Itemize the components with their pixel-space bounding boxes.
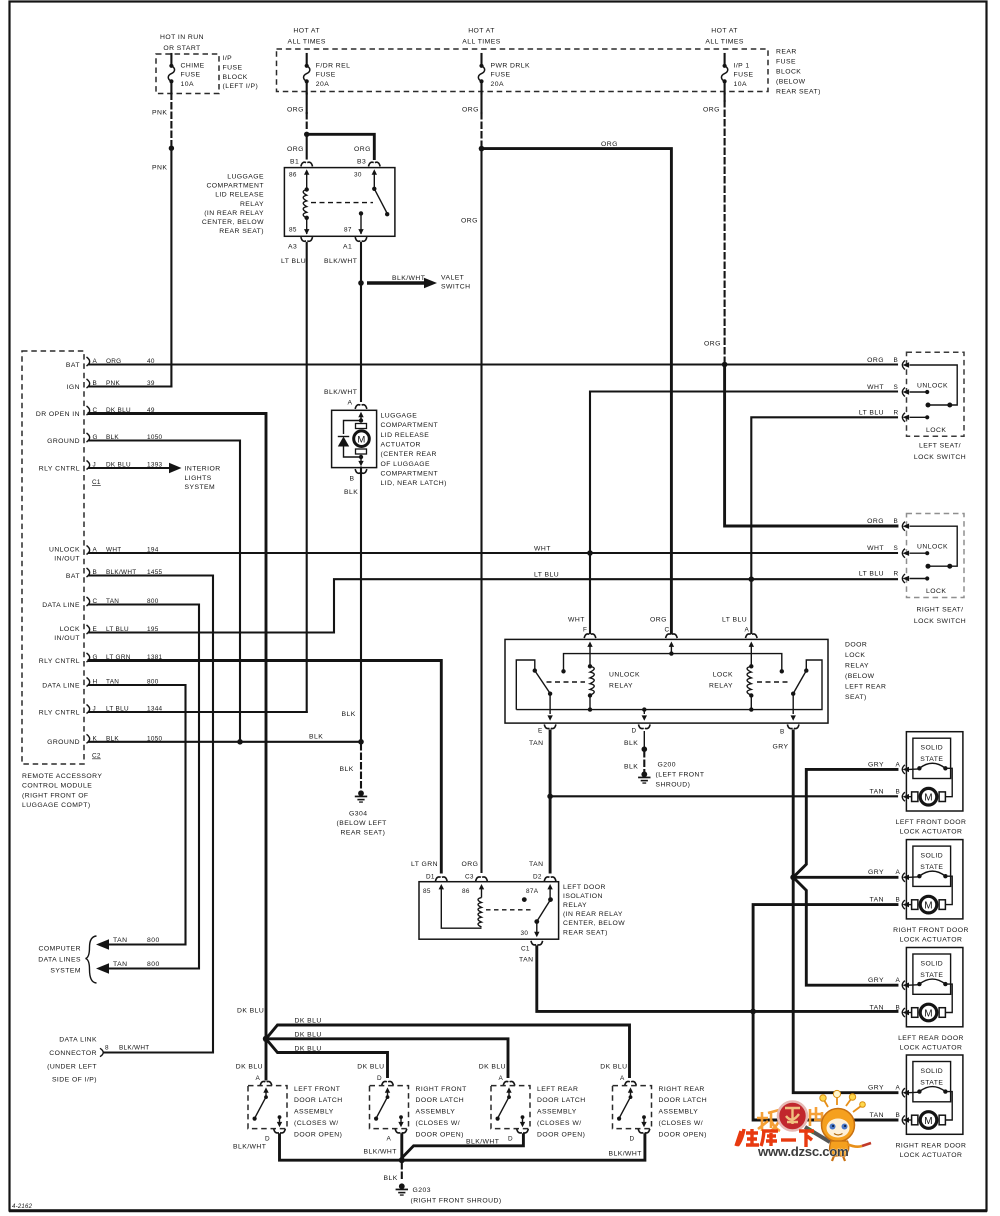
- svg-text:ORG: ORG: [703, 107, 720, 114]
- svg-text:ORG: ORG: [287, 146, 304, 153]
- svg-text:A3: A3: [288, 244, 297, 251]
- svg-text:HOT AT: HOT AT: [711, 27, 738, 34]
- wire BLK 1050 GROUND row K to G304 splice: [89, 734, 364, 745]
- svg-text:A: A: [896, 869, 901, 876]
- svg-text:LT BLU: LT BLU: [281, 258, 306, 265]
- svg-text:D: D: [508, 1136, 513, 1143]
- motor: right front door lock actuator: [868, 840, 969, 944]
- wire BLK 1050 GROUND row down to K row: [89, 441, 240, 742]
- svg-text:BLK/WHT: BLK/WHT: [609, 1150, 642, 1157]
- svg-text:D: D: [632, 728, 637, 735]
- svg-text:TAN: TAN: [529, 740, 543, 747]
- svg-text:LEFT REAR: LEFT REAR: [537, 1086, 578, 1093]
- door lock relay label: [845, 642, 886, 702]
- svg-text:BAT: BAT: [66, 573, 80, 580]
- wire TAN from relay E down to isolation relay D2, branch to LF actuator B: [547, 731, 897, 872]
- switch: left rear door latch assembly: [479, 1064, 586, 1143]
- wire WHT 194 UNLOCK row to seat switches and relay F: [89, 392, 897, 634]
- svg-text:G203: G203: [413, 1187, 431, 1194]
- svg-text:LOCK ACTUATOR: LOCK ACTUATOR: [900, 937, 963, 944]
- svg-text:DOOR OPEN): DOOR OPEN): [294, 1131, 342, 1138]
- svg-text:BLK: BLK: [624, 764, 638, 771]
- svg-text:FUSE: FUSE: [776, 59, 796, 66]
- svg-text:LEFT FRONT DOOR: LEFT FRONT DOOR: [896, 819, 967, 826]
- motor: left front door lock actuator: [868, 732, 966, 836]
- svg-text:(CLOSES W/: (CLOSES W/: [294, 1120, 339, 1127]
- svg-text:LT BLU: LT BLU: [859, 571, 884, 578]
- svg-text:ACTUATOR: ACTUATOR: [381, 441, 421, 448]
- svg-text:ALL TIMES: ALL TIMES: [705, 38, 743, 45]
- svg-text:LOCK: LOCK: [60, 626, 80, 633]
- svg-text:A: A: [256, 1075, 261, 1082]
- svg-text:COMPARTMENT: COMPARTMENT: [206, 183, 264, 190]
- svg-text:C3: C3: [465, 874, 474, 881]
- ground G304: [337, 744, 387, 837]
- svg-text:TAN: TAN: [870, 1005, 884, 1012]
- svg-text:A: A: [896, 977, 901, 984]
- svg-text:LOCK ACTUATOR: LOCK ACTUATOR: [900, 829, 963, 836]
- data link connector label: [47, 1037, 97, 1084]
- svg-text:RIGHT REAR DOOR: RIGHT REAR DOOR: [896, 1143, 967, 1150]
- svg-text:LEFT SEAT/: LEFT SEAT/: [919, 443, 961, 450]
- switch: right front door latch assembly: [357, 1064, 467, 1143]
- pin 87: [359, 211, 363, 215]
- svg-text:ALL TIMES: ALL TIMES: [287, 38, 325, 45]
- svg-text:ORG: ORG: [287, 107, 304, 114]
- wire DK BLU splice to four door latches: [237, 1008, 630, 1080]
- svg-text:(CLOSES W/: (CLOSES W/: [659, 1120, 704, 1127]
- svg-text:LID, NEAR LATCH): LID, NEAR LATCH): [381, 480, 447, 487]
- svg-text:REAR SEAT): REAR SEAT): [776, 89, 821, 96]
- svg-text:UNLOCK: UNLOCK: [609, 672, 640, 679]
- svg-text:BLK/WHT: BLK/WHT: [324, 389, 357, 396]
- svg-text:LOCK ACTUATOR: LOCK ACTUATOR: [900, 1045, 963, 1052]
- motor: luggage compartment lid release actuator: [324, 389, 377, 740]
- svg-text:DOOR OPEN): DOOR OPEN): [537, 1131, 585, 1138]
- svg-text:BLK/WHT: BLK/WHT: [324, 258, 357, 265]
- svg-text:86: 86: [462, 888, 470, 895]
- fuse CHIME FUSE 10A (I/P fuse block): [156, 34, 219, 94]
- svg-text:(BELOW: (BELOW: [845, 673, 875, 680]
- svg-text:GROUND: GROUND: [47, 739, 80, 746]
- rear fuse block (dashed box): [277, 49, 769, 92]
- I/P fuse block label: [223, 55, 259, 90]
- svg-text:FUSE: FUSE: [316, 72, 336, 79]
- svg-text:8: 8: [105, 1045, 109, 1052]
- diode: [344, 421, 362, 435]
- svg-text:DK BLU: DK BLU: [600, 1064, 627, 1071]
- svg-text:ASSEMBLY: ASSEMBLY: [659, 1109, 699, 1116]
- svg-text:BLK/WHT: BLK/WHT: [119, 1045, 150, 1052]
- svg-text:S: S: [894, 384, 899, 391]
- svg-text:RELAY: RELAY: [709, 683, 733, 690]
- svg-text:LOCK: LOCK: [845, 652, 865, 659]
- fuse F/DR REL FUSE 20A: [287, 27, 350, 93]
- svg-text:G304: G304: [349, 811, 367, 818]
- wire BLK/WHT from luggage relay A1 to valet junction and actuator: [358, 243, 364, 401]
- svg-text:CENTER, BELOW: CENTER, BELOW: [202, 219, 264, 226]
- svg-text:D: D: [630, 1136, 635, 1143]
- svg-text:RIGHT SEAT/: RIGHT SEAT/: [917, 607, 964, 614]
- svg-text:ISOLATION: ISOLATION: [563, 893, 603, 900]
- switch: right seat lock switch: [902, 514, 964, 598]
- svg-text:85: 85: [423, 888, 431, 895]
- svg-text:DOOR: DOOR: [845, 642, 867, 649]
- svg-text:HOT AT: HOT AT: [293, 27, 320, 34]
- svg-text:B1: B1: [290, 159, 299, 166]
- svg-text:R: R: [894, 571, 899, 578]
- svg-text:RELAY: RELAY: [609, 683, 633, 690]
- wire GRY from relay B to all four door lock actuators A: [790, 731, 897, 1093]
- svg-text:S: S: [894, 545, 899, 552]
- svg-text:DK BLU: DK BLU: [295, 1018, 322, 1025]
- svg-text:CONTROL MODULE: CONTROL MODULE: [22, 783, 92, 790]
- svg-text:D1: D1: [426, 874, 435, 881]
- svg-text:HOT IN RUN: HOT IN RUN: [160, 34, 204, 41]
- wire BLK/WHT from latches to G203 junction: [233, 1135, 645, 1163]
- svg-text:(IN REAR RELAY: (IN REAR RELAY: [563, 911, 623, 918]
- svg-text:R: R: [894, 410, 899, 417]
- svg-text:LEFT REAR: LEFT REAR: [845, 684, 886, 691]
- svg-text:(LEFT I/P): (LEFT I/P): [223, 83, 259, 90]
- wire ORG 40 BAT row to left seat switch B: [89, 363, 897, 365]
- svg-text:A: A: [499, 1075, 504, 1082]
- svg-text:B: B: [894, 518, 899, 525]
- ground G203: [384, 1163, 502, 1205]
- wire ORG from splice down to right seat lock switch B: [725, 365, 897, 527]
- svg-text:B: B: [894, 357, 899, 364]
- svg-text:BAT: BAT: [66, 362, 80, 369]
- svg-text:DOOR LATCH: DOOR LATCH: [537, 1097, 586, 1104]
- svg-text:ORG: ORG: [867, 518, 884, 525]
- svg-text:HOT AT: HOT AT: [468, 27, 495, 34]
- svg-text:TAN: TAN: [113, 961, 127, 968]
- svg-text:B: B: [896, 1112, 901, 1119]
- svg-text:DK BLU: DK BLU: [357, 1064, 384, 1071]
- svg-text:DK BLU: DK BLU: [295, 1031, 322, 1038]
- svg-text:(BELOW: (BELOW: [776, 79, 806, 86]
- computer data lines system label: [38, 936, 96, 983]
- svg-text:WHT: WHT: [534, 546, 551, 553]
- relay activation dashed link: [311, 202, 373, 204]
- svg-text:BLK: BLK: [384, 1175, 398, 1182]
- svg-text:TAN: TAN: [529, 861, 543, 868]
- svg-text:BLK: BLK: [340, 766, 354, 773]
- svg-text:DR OPEN IN: DR OPEN IN: [36, 411, 80, 418]
- svg-text:RLY CNTRL: RLY CNTRL: [39, 658, 80, 665]
- svg-text:ORG: ORG: [601, 141, 618, 148]
- svg-text:FUSE: FUSE: [181, 72, 201, 79]
- svg-text:ORG: ORG: [354, 146, 371, 153]
- svg-text:DATA LINE: DATA LINE: [42, 602, 80, 609]
- isolation relay label: [563, 884, 625, 936]
- wire LT BLU 1344 RLY CNTRL row joins A3: [89, 711, 307, 713]
- svg-text:ORG: ORG: [867, 357, 884, 364]
- svg-text:IN/OUT: IN/OUT: [54, 635, 80, 642]
- svg-text:RLY CNTRL: RLY CNTRL: [39, 709, 80, 716]
- svg-text:87: 87: [344, 227, 352, 234]
- svg-text:GRY: GRY: [773, 744, 789, 751]
- svg-text:VALET: VALET: [441, 275, 464, 282]
- svg-text:DOOR LATCH: DOOR LATCH: [416, 1097, 465, 1104]
- wire ORG from I/P1 fuse (dashed) down to BAT row: [703, 94, 727, 368]
- svg-text:DATA LINE: DATA LINE: [42, 682, 80, 689]
- fuse I/P 1 FUSE 10A: [705, 27, 753, 93]
- svg-text:E: E: [538, 728, 543, 735]
- svg-text:A: A: [745, 627, 750, 634]
- svg-text:86: 86: [289, 172, 297, 179]
- svg-text:REAR SEAT): REAR SEAT): [219, 228, 264, 235]
- svg-text:DOOR LATCH: DOOR LATCH: [294, 1097, 343, 1104]
- svg-text:PWR DRLK: PWR DRLK: [491, 62, 530, 69]
- svg-text:REAR: REAR: [776, 49, 797, 56]
- svg-text:DATA LINES: DATA LINES: [38, 957, 81, 964]
- watermark: dzsc.com logo: [736, 1090, 871, 1161]
- right seat lock switch labels: [859, 518, 966, 625]
- svg-text:SYSTEM: SYSTEM: [185, 484, 216, 491]
- switch: left seat lock switch: [902, 352, 964, 436]
- svg-text:GRY: GRY: [868, 1085, 884, 1092]
- svg-text:RIGHT FRONT: RIGHT FRONT: [416, 1086, 467, 1093]
- svg-text:(CLOSES W/: (CLOSES W/: [416, 1120, 461, 1127]
- svg-text:A: A: [620, 1075, 625, 1082]
- svg-text:SWITCH: SWITCH: [441, 284, 471, 291]
- svg-text:4-2162: 4-2162: [12, 1204, 33, 1210]
- ground G200: [624, 731, 705, 789]
- svg-text:LOCK SWITCH: LOCK SWITCH: [914, 618, 966, 625]
- svg-text:(CENTER REAR: (CENTER REAR: [381, 451, 437, 458]
- svg-text:ASSEMBLY: ASSEMBLY: [416, 1109, 456, 1116]
- relay: left door isolation relay: [411, 861, 559, 964]
- svg-text:LUGGAGE COMPT): LUGGAGE COMPT): [22, 802, 91, 809]
- svg-text:B: B: [896, 897, 901, 904]
- svg-text:BLK: BLK: [624, 740, 638, 747]
- svg-text:C1: C1: [521, 946, 530, 953]
- svg-text:I/P 1: I/P 1: [734, 62, 750, 69]
- svg-text:ORG: ORG: [462, 107, 479, 114]
- svg-text:BLK: BLK: [344, 489, 358, 496]
- svg-text:LOCK SWITCH: LOCK SWITCH: [914, 454, 966, 461]
- svg-text:BLK/WHT: BLK/WHT: [233, 1144, 266, 1151]
- svg-text:20A: 20A: [491, 81, 504, 88]
- svg-text:REAR SEAT): REAR SEAT): [563, 929, 608, 936]
- svg-text:WHT: WHT: [867, 545, 884, 552]
- rear fuse block label: [776, 49, 821, 96]
- svg-text:SYSTEM: SYSTEM: [50, 968, 81, 975]
- svg-text:CONNECTOR: CONNECTOR: [49, 1050, 97, 1057]
- svg-text:M: M: [357, 434, 365, 445]
- svg-text:DK BLU: DK BLU: [237, 1008, 264, 1015]
- svg-text:A: A: [387, 1136, 392, 1143]
- svg-text:(UNDER LEFT: (UNDER LEFT: [47, 1063, 97, 1070]
- switch: left front door latch assembly: [236, 1064, 343, 1143]
- svg-text:A: A: [896, 1085, 901, 1092]
- svg-text:DOOR OPEN): DOOR OPEN): [659, 1131, 707, 1138]
- svg-text:LT BLU: LT BLU: [859, 410, 884, 417]
- svg-text:LUGGAGE: LUGGAGE: [227, 174, 264, 181]
- wire LT BLU from luggage relay A3 down to RACM pin J (circuit 1344): [306, 243, 308, 712]
- svg-text:PNK: PNK: [152, 110, 167, 117]
- svg-text:INTERIOR: INTERIOR: [185, 466, 221, 473]
- svg-text:LT BLU: LT BLU: [722, 617, 747, 624]
- svg-text:LEFT DOOR: LEFT DOOR: [563, 884, 606, 891]
- svg-text:DK BLU: DK BLU: [236, 1064, 263, 1071]
- svg-text:A: A: [348, 400, 353, 407]
- svg-text:10A: 10A: [734, 81, 747, 88]
- svg-text:SEAT): SEAT): [845, 694, 867, 701]
- wire LT GRN 1381 RLY CNTRL row to isolation relay D1: [89, 661, 441, 873]
- svg-text:TAN: TAN: [870, 789, 884, 796]
- svg-text:RELAY: RELAY: [845, 663, 869, 670]
- svg-text:B: B: [780, 729, 785, 736]
- relay coil (luggage relay): [305, 187, 309, 191]
- svg-text:WHT: WHT: [568, 617, 585, 624]
- svg-text:BLK/WHT: BLK/WHT: [392, 275, 425, 282]
- svg-text:WHT: WHT: [867, 384, 884, 391]
- svg-text:UNLOCK: UNLOCK: [49, 546, 80, 553]
- wire TAN from isolation relay C1 to RF/LR/RR actuators B: [537, 905, 897, 1120]
- wire ORG continues down to isolation relay C3: [461, 149, 482, 872]
- svg-text:C: C: [665, 627, 670, 634]
- svg-text:I/P: I/P: [223, 55, 233, 62]
- svg-text:F: F: [583, 627, 587, 634]
- svg-text:REAR SEAT): REAR SEAT): [341, 830, 386, 837]
- motor: right rear door lock actuator: [868, 1055, 966, 1159]
- svg-text:RELAY: RELAY: [563, 902, 587, 909]
- svg-text:FUSE: FUSE: [223, 64, 243, 71]
- luggage actuator label: [381, 413, 447, 488]
- svg-text:LEFT REAR DOOR: LEFT REAR DOOR: [898, 1035, 964, 1042]
- svg-text:TAN: TAN: [870, 897, 884, 904]
- svg-text:C2: C2: [92, 753, 101, 760]
- wire PNK 39 IGN row: [89, 385, 171, 387]
- svg-text:www.dzsc.com: www.dzsc.com: [757, 1144, 848, 1159]
- svg-text:LID RELEASE: LID RELEASE: [381, 432, 430, 439]
- svg-text:B: B: [896, 1005, 901, 1012]
- svg-text:87A: 87A: [526, 888, 539, 895]
- svg-text:PNK: PNK: [152, 165, 167, 172]
- svg-text:DATA LINK: DATA LINK: [59, 1037, 97, 1044]
- svg-text:TAN: TAN: [870, 1112, 884, 1119]
- svg-text:BLOCK: BLOCK: [223, 74, 248, 81]
- svg-text:FUSE: FUSE: [734, 72, 754, 79]
- svg-text:CENTER, BELOW: CENTER, BELOW: [563, 920, 625, 927]
- motor M: [356, 424, 367, 429]
- svg-text:(RIGHT FRONT SHROUD): (RIGHT FRONT SHROUD): [411, 1198, 502, 1205]
- svg-text:OR START: OR START: [163, 45, 200, 52]
- svg-text:RLY CNTRL: RLY CNTRL: [39, 465, 80, 472]
- svg-text:D: D: [265, 1136, 270, 1143]
- svg-text:ALL TIMES: ALL TIMES: [462, 38, 500, 45]
- svg-text:BLK: BLK: [309, 734, 323, 741]
- svg-text:GROUND: GROUND: [47, 438, 80, 445]
- svg-text:LIGHTS: LIGHTS: [185, 475, 212, 482]
- svg-text:REMOTE ACCESSORY: REMOTE ACCESSORY: [22, 773, 102, 780]
- svg-text:TAN: TAN: [519, 957, 533, 964]
- svg-text:IN/OUT: IN/OUT: [54, 555, 80, 562]
- svg-text:30: 30: [521, 930, 529, 937]
- wire TAN 800 DATA LINE row C to computer data lines: [89, 605, 199, 974]
- valet switch arrow (BLK/WHT): [367, 275, 471, 291]
- svg-text:LUGGAGE: LUGGAGE: [381, 413, 418, 420]
- svg-text:D: D: [377, 1075, 382, 1082]
- svg-text:85: 85: [289, 227, 297, 234]
- svg-text:TAN: TAN: [113, 937, 127, 944]
- wire ORG branch right to door lock relay pin C: [482, 141, 672, 633]
- svg-text:B: B: [350, 476, 355, 483]
- svg-text:LID RELEASE: LID RELEASE: [215, 192, 264, 199]
- relay: door lock relay (unlock + lock): [505, 617, 828, 751]
- RACM label: [22, 773, 102, 809]
- svg-text:LEFT FRONT: LEFT FRONT: [294, 1086, 340, 1093]
- svg-text:(IN REAR RELAY: (IN REAR RELAY: [204, 210, 264, 217]
- svg-text:LOCK: LOCK: [713, 672, 733, 679]
- svg-text:ORG: ORG: [704, 341, 721, 348]
- svg-text:RELAY: RELAY: [240, 201, 264, 208]
- svg-text:G200: G200: [658, 762, 676, 769]
- svg-text:800: 800: [147, 937, 160, 944]
- fuse PWR DRLK FUSE 20A: [462, 27, 530, 93]
- svg-text:D2: D2: [533, 874, 542, 881]
- svg-text:LOCK ACTUATOR: LOCK ACTUATOR: [900, 1152, 963, 1159]
- wire LT BLU 195 LOCK row to seat switches and relay A: [89, 417, 897, 633]
- svg-text:GRY: GRY: [868, 869, 884, 876]
- svg-text:10A: 10A: [181, 81, 194, 88]
- svg-text:GRY: GRY: [868, 761, 884, 768]
- wire DK BLU 1393 RLY CNTRL to interior lights system: [89, 463, 221, 491]
- motor: left rear door lock actuator: [868, 948, 964, 1052]
- svg-text:OF LUGGAGE: OF LUGGAGE: [381, 461, 430, 468]
- svg-text:ORG: ORG: [461, 218, 478, 225]
- svg-text:LT BLU: LT BLU: [534, 572, 559, 579]
- svg-text:20A: 20A: [316, 81, 329, 88]
- svg-text:DK BLU: DK BLU: [295, 1045, 322, 1052]
- svg-text:GRY: GRY: [868, 977, 884, 984]
- svg-text:COMPARTMENT: COMPARTMENT: [381, 470, 439, 477]
- relay: luggage compartment lid release relay: [281, 168, 395, 265]
- svg-text:DOOR OPEN): DOOR OPEN): [416, 1131, 464, 1138]
- svg-text:30: 30: [354, 172, 362, 179]
- svg-text:RIGHT FRONT DOOR: RIGHT FRONT DOOR: [893, 927, 969, 934]
- wire PNK from chime fuse down to RACM pin B: [152, 94, 174, 387]
- svg-text:BLK: BLK: [342, 711, 356, 718]
- left seat lock switch labels: [859, 357, 966, 461]
- svg-text:A: A: [896, 761, 901, 768]
- svg-text:A1: A1: [343, 244, 352, 251]
- svg-text:(BELOW LEFT: (BELOW LEFT: [337, 820, 387, 827]
- wire ORG from PWR DRLK fuse (dashed) to splice: [462, 94, 484, 152]
- svg-text:B3: B3: [357, 159, 366, 166]
- svg-text:(LEFT FRONT: (LEFT FRONT: [656, 772, 705, 779]
- wire DK BLU 49 DR OPEN IN row down to door latches: [89, 414, 266, 1037]
- svg-text:COMPARTMENT: COMPARTMENT: [381, 422, 439, 429]
- svg-text:ASSEMBLY: ASSEMBLY: [294, 1109, 334, 1116]
- svg-text:B: B: [896, 789, 901, 796]
- svg-text:DK BLU: DK BLU: [479, 1064, 506, 1071]
- wire TAN 800 DATA LINE row H to computer data lines: [89, 685, 186, 950]
- svg-text:ORG: ORG: [650, 617, 667, 624]
- wire BLK/WHT 1455 BAT row down to data link connector: [89, 576, 213, 1057]
- svg-text:IGN: IGN: [67, 384, 80, 391]
- svg-text:RIGHT REAR: RIGHT REAR: [659, 1086, 705, 1093]
- svg-text:COMPUTER: COMPUTER: [39, 946, 82, 953]
- svg-text:C1: C1: [92, 479, 101, 486]
- svg-text:SIDE OF I/P): SIDE OF I/P): [52, 1077, 97, 1084]
- svg-text:ASSEMBLY: ASSEMBLY: [537, 1109, 577, 1116]
- svg-text:BLK/WHT: BLK/WHT: [364, 1148, 397, 1155]
- svg-text:BLK/WHT: BLK/WHT: [466, 1139, 499, 1146]
- RACM pin rows (letters, wire names, circuit numbers, pin brackets): [36, 357, 163, 760]
